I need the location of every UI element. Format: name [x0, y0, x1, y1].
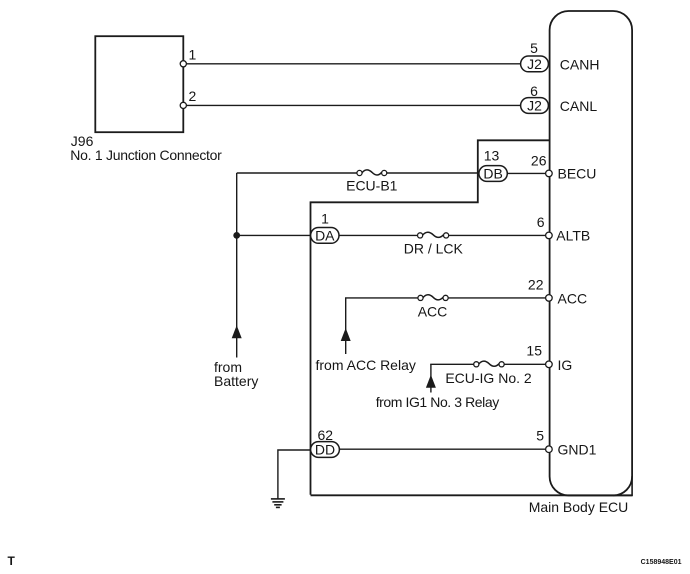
svg-text:5: 5 [530, 40, 538, 56]
svg-text:C158948E01: C158948E01 [641, 559, 682, 566]
wire fuse to IG pin [504, 363, 546, 365]
junction node (battery feed) [233, 232, 240, 239]
svg-text:2: 2 [189, 88, 197, 104]
svg-text:CANH: CANH [560, 56, 600, 72]
wire fuse to DB [387, 172, 480, 174]
svg-text:ACC: ACC [558, 290, 588, 306]
pin 15 circle (IG) [546, 361, 553, 368]
wire DD to GND1 pin [339, 448, 546, 450]
connector DA pin 1 [311, 228, 339, 244]
wire from ACC Relay (vertical) [345, 298, 347, 354]
svg-text:5: 5 [536, 427, 544, 443]
connector J2 (pin 5) [521, 56, 549, 72]
svg-text:15: 15 [526, 342, 542, 358]
svg-text:ALTB: ALTB [556, 228, 590, 244]
fuse DR / LCK [418, 233, 423, 238]
svg-text:from IG1 No. 3 Relay: from IG1 No. 3 Relay [376, 394, 500, 410]
svg-text:T: T [8, 554, 16, 568]
svg-text:ECU-IG No. 2: ECU-IG No. 2 [445, 370, 532, 386]
svg-text:6: 6 [530, 83, 538, 99]
arrow from IG1 No. 3 Relay [426, 375, 436, 388]
svg-text:CANL: CANL [560, 98, 598, 114]
svg-text:GND1: GND1 [558, 442, 597, 458]
wire fuse to ALTB pin [449, 234, 546, 236]
wire CANH (J96 pin 1 to J2) [183, 63, 521, 65]
wire from Battery (vertical) [236, 235, 238, 357]
fuse ECU-IG No. 2 [474, 362, 479, 367]
svg-text:1: 1 [321, 211, 329, 227]
svg-text:ECU-B1: ECU-B1 [346, 178, 398, 194]
pin 2 of J96 [180, 102, 186, 108]
svg-text:62: 62 [318, 427, 334, 443]
harness box outline [311, 140, 550, 495]
svg-text:from ACC Relay: from ACC Relay [316, 357, 416, 373]
svg-text:DB: DB [483, 166, 502, 182]
svg-text:BECU: BECU [558, 166, 597, 182]
harness box bottom edge [311, 494, 633, 496]
ECU bottom-right square corner artifact [613, 476, 632, 496]
svg-text:6: 6 [537, 214, 545, 230]
connector DD pin 62 [311, 442, 340, 458]
junction connector J96 box [95, 36, 183, 132]
svg-text:Main Body ECU: Main Body ECU [529, 499, 629, 515]
wire CANL (J96 pin 2 to J2) [183, 104, 521, 106]
Main Body ECU outline [550, 11, 633, 496]
svg-text:26: 26 [531, 152, 547, 168]
svg-text:Battery: Battery [214, 373, 258, 389]
wire DB to BECU pin [507, 172, 546, 174]
fuse ACC [418, 295, 423, 300]
svg-text:No. 1 Junction Connector: No. 1 Junction Connector [70, 147, 222, 163]
ground [271, 499, 285, 508]
wire ACC row [345, 297, 418, 299]
svg-text:IG: IG [558, 357, 573, 373]
wire BECU feed (vertical from node to ECU-B1 fuse) [236, 173, 238, 235]
svg-text:J2: J2 [527, 56, 542, 72]
arrow from ACC Relay [341, 328, 351, 341]
svg-text:13: 13 [484, 147, 500, 163]
pin 5 circle (GND1) [546, 446, 553, 453]
pin 22 circle (ACC) [546, 295, 553, 302]
svg-text:DR / LCK: DR / LCK [404, 240, 464, 256]
svg-text:DA: DA [315, 227, 335, 243]
svg-text:DD: DD [315, 442, 335, 458]
wire from IG1 No. 3 Relay (vertical) [430, 364, 432, 392]
wire ECU-B1 row [237, 172, 357, 174]
fuse ECU-B1 [357, 170, 362, 175]
pin 1 of J96 [180, 61, 186, 67]
svg-text:ACC: ACC [418, 303, 448, 319]
connector J2 (pin 6) [521, 98, 549, 114]
wire node to DA [237, 234, 311, 236]
pin 6 circle (ALTB) [546, 232, 553, 239]
wire DD to ground [278, 450, 311, 499]
arrow from Battery [232, 325, 242, 338]
pin 26 circle (BECU) [546, 170, 553, 177]
wire DA to DR/LCK fuse [339, 234, 418, 236]
wire fuse to ACC pin [448, 297, 546, 299]
svg-text:J2: J2 [527, 98, 542, 114]
connector DB pin 13 [479, 166, 507, 182]
svg-text:22: 22 [528, 277, 544, 293]
wire IG row [430, 363, 474, 365]
svg-text:1: 1 [189, 47, 197, 63]
